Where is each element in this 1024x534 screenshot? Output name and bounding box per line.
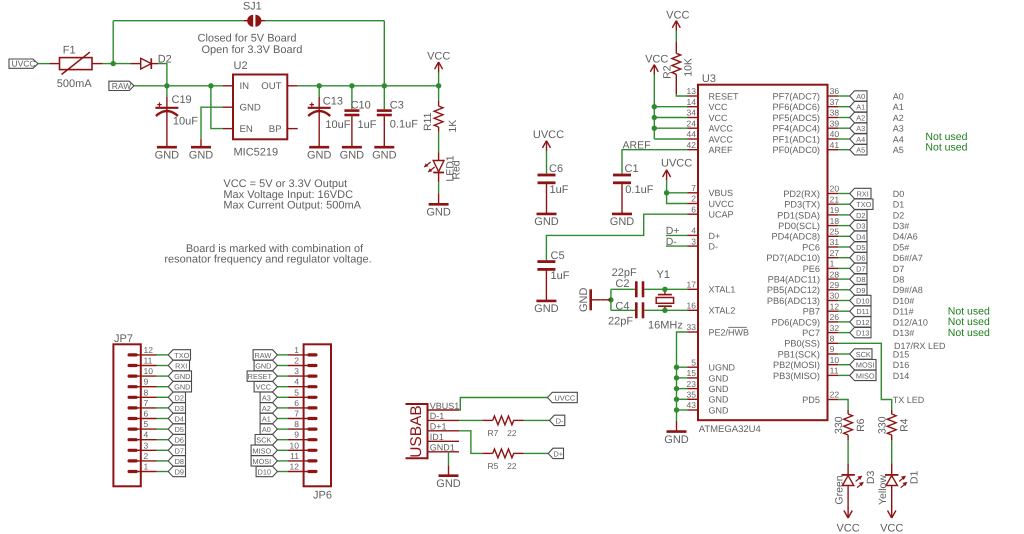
junction C10	[349, 83, 354, 88]
junction C13	[317, 83, 322, 88]
svg-text:C3: C3	[390, 100, 404, 112]
junction C19 tap	[164, 83, 169, 88]
U3 pin 8 PB0(SS)	[828, 342, 839, 344]
svg-text:26: 26	[830, 312, 840, 322]
wire pin 39 to flag	[838, 127, 850, 129]
svg-text:RAW: RAW	[254, 351, 271, 360]
svg-text:PF5(ADC5): PF5(ADC5)	[773, 113, 820, 123]
svg-text:R6: R6	[855, 418, 867, 432]
svg-text:A1: A1	[856, 103, 865, 112]
svg-text:11: 11	[830, 366, 839, 376]
svg-text:4: 4	[294, 377, 299, 387]
svg-text:UVCC: UVCC	[533, 129, 564, 141]
wire JP7 pin 10	[157, 375, 169, 377]
ground for C19	[157, 146, 177, 149]
svg-text:C6: C6	[549, 163, 563, 175]
node flag D8 JP7	[168, 456, 185, 466]
svg-text:25: 25	[830, 227, 840, 237]
svg-text:SCK: SCK	[856, 350, 871, 359]
svg-text:D0: D0	[893, 189, 905, 199]
node flag A0 JP6	[260, 424, 277, 434]
U3 pin 17 XTAL1	[688, 288, 699, 290]
svg-text:PB6(ADC13): PB6(ADC13)	[767, 296, 820, 306]
svg-text:IN: IN	[240, 81, 250, 92]
svg-text:VBUS1: VBUS1	[430, 401, 460, 411]
svg-text:2: 2	[691, 194, 696, 204]
svg-text:PD6(ADC9): PD6(ADC9)	[772, 317, 821, 327]
wire R4 to LED	[891, 440, 893, 463]
U3 pin 12 PB7	[828, 310, 839, 312]
node flag D13	[850, 327, 871, 337]
node flag A5	[850, 145, 867, 155]
node flag D4	[850, 231, 867, 241]
svg-text:8: 8	[144, 387, 149, 397]
JP6 pin 10	[309, 449, 316, 452]
svg-text:20: 20	[830, 184, 840, 194]
svg-text:22: 22	[507, 428, 517, 438]
U3 pin 28 PB4(ADC11)	[828, 278, 839, 280]
wire R5 to D+ flag	[524, 452, 549, 454]
svg-text:GND: GND	[436, 478, 461, 490]
svg-text:PC6: PC6	[802, 242, 820, 252]
node flag D7	[850, 263, 867, 273]
svg-text:PE6: PE6	[803, 264, 820, 274]
svg-text:D8: D8	[893, 275, 905, 285]
crystal Y1 stubs	[664, 289, 666, 294]
svg-text:UVCC: UVCC	[554, 394, 575, 403]
svg-text:PF7(ADC7): PF7(ADC7)	[773, 91, 820, 101]
node flag A2 JP6	[260, 403, 277, 413]
svg-text:PF4(ADC4): PF4(ADC4)	[773, 124, 820, 134]
node flag SCK JP6	[255, 435, 277, 445]
svg-text:11: 11	[144, 356, 153, 366]
wire JP7 pin 1	[157, 471, 169, 473]
U3 pin 5 UGND	[688, 366, 699, 368]
JP7 pin 5	[129, 428, 136, 431]
node flag RXI	[850, 188, 871, 198]
wire D+ net	[666, 234, 688, 236]
svg-text:7: 7	[691, 183, 696, 193]
JP7 pin 11	[129, 364, 136, 367]
wire pin 18 to flag	[838, 225, 850, 227]
svg-text:22: 22	[830, 390, 840, 400]
svg-text:D-1: D-1	[430, 411, 445, 421]
svg-text:1: 1	[294, 345, 299, 355]
node flag D4 JP7	[168, 413, 185, 423]
svg-text:1uF: 1uF	[550, 184, 569, 196]
svg-text:PB1(SCK): PB1(SCK)	[778, 349, 820, 359]
capacitor C1	[613, 174, 631, 177]
svg-text:D11#: D11#	[893, 307, 914, 317]
node flag D6 JP7	[168, 435, 185, 445]
U3 pin 27 PD7(ADC10)	[828, 257, 839, 259]
wire pin 38 to flag	[838, 117, 850, 119]
svg-text:40: 40	[830, 129, 840, 139]
U3 pin 4 D+	[688, 234, 699, 236]
svg-text:18: 18	[830, 216, 840, 226]
svg-text:VCC: VCC	[256, 383, 271, 392]
U3 pin 6 UCAP	[688, 213, 699, 215]
svg-text:D15: D15	[893, 349, 910, 359]
node flag D5 JP7	[168, 424, 185, 434]
wire R7 to D- flag	[524, 419, 550, 421]
svg-text:GND: GND	[189, 149, 214, 161]
svg-text:GND: GND	[709, 395, 730, 405]
USBAB pin D+1	[428, 430, 460, 432]
svg-text:D9: D9	[175, 468, 184, 477]
svg-text:C5: C5	[551, 250, 565, 262]
wire UCAP to C5	[546, 214, 687, 260]
node flag D6	[850, 253, 867, 263]
svg-text:VCC: VCC	[666, 10, 689, 22]
wire JP6 pin 5	[277, 396, 288, 398]
wire JP7 pin 11	[157, 365, 169, 367]
wire C3 lead	[383, 86, 385, 110]
svg-text:32: 32	[830, 323, 840, 333]
svg-text:A0: A0	[893, 91, 904, 101]
wire SJ1 left vertical	[112, 21, 114, 64]
wire JP7 pin 8	[157, 396, 169, 398]
resistor R11 leads	[438, 101, 440, 106]
node flag A3 JP6	[260, 392, 277, 402]
JP6 pin 3	[309, 375, 316, 378]
svg-text:1: 1	[830, 259, 835, 269]
ground for C1	[612, 213, 632, 216]
svg-text:GND: GND	[664, 434, 689, 446]
svg-text:41: 41	[830, 140, 840, 150]
svg-text:C10: C10	[351, 100, 371, 112]
svg-text:6: 6	[294, 398, 299, 408]
svg-text:R7: R7	[488, 428, 499, 438]
node flag GND JP7	[168, 371, 191, 381]
node flag MOSI JP6	[251, 456, 277, 466]
svg-text:0.1uF: 0.1uF	[625, 184, 653, 196]
svg-text:RESET: RESET	[248, 372, 273, 381]
regulator U2 pins	[223, 85, 233, 87]
svg-text:C19: C19	[172, 94, 192, 106]
svg-text:D+: D+	[553, 449, 563, 458]
svg-text:A1: A1	[893, 102, 904, 112]
U3 pin 26 PD6(ADC9)	[828, 321, 839, 323]
svg-text:PD7(ADC10): PD7(ADC10)	[766, 253, 820, 263]
svg-text:13: 13	[687, 86, 697, 96]
svg-text:A2: A2	[893, 113, 904, 123]
svg-text:MOSI: MOSI	[253, 457, 272, 466]
svg-text:PB0(SS): PB0(SS)	[784, 339, 820, 349]
svg-text:D1: D1	[909, 471, 921, 485]
svg-text:F1: F1	[63, 44, 76, 56]
wire pin 12 to flag	[838, 310, 850, 312]
svg-text:TXO: TXO	[856, 200, 871, 209]
resistor R7 leads	[482, 419, 492, 421]
wire pin 10 to flag	[838, 364, 850, 366]
svg-text:D14: D14	[893, 371, 910, 381]
resistor R6	[844, 414, 853, 435]
wire pin 28 to flag	[838, 278, 850, 280]
op-amp regulator U2 MIC5219 body	[233, 75, 287, 140]
svg-text:VCC: VCC	[836, 523, 859, 534]
svg-text:USBAB: USBAB	[408, 405, 425, 458]
svg-text:39: 39	[830, 118, 840, 128]
JP7 pin 3	[129, 449, 136, 452]
junction R11	[436, 83, 441, 88]
resistor R6 leads	[847, 410, 849, 414]
ground for C10	[342, 146, 362, 149]
svg-text:GND: GND	[578, 288, 590, 313]
U3 pin 11 PB3(MISO)	[828, 374, 839, 376]
svg-text:1uF: 1uF	[358, 119, 377, 131]
svg-text:TXO: TXO	[174, 351, 189, 360]
node D- flag	[550, 415, 565, 425]
svg-text:43: 43	[687, 400, 697, 410]
svg-text:Red: Red	[451, 160, 463, 179]
svg-text:PD3(TX): PD3(TX)	[784, 200, 820, 210]
svg-text:A4: A4	[893, 134, 904, 144]
wire D1 to VCC	[891, 486, 893, 509]
ground for LED1	[429, 203, 449, 206]
wire pin 1 to flag	[838, 267, 850, 269]
wire pin 11 to flag	[838, 374, 850, 376]
node flag D3 JP7	[168, 403, 185, 413]
USBAB pin D-1	[428, 419, 460, 421]
JP6 pin 9	[309, 438, 316, 441]
svg-text:D17/RX LED: D17/RX LED	[894, 341, 946, 351]
wire JP7 pin 3	[157, 449, 169, 451]
node UVCC flag right	[548, 392, 578, 402]
svg-text:C2: C2	[615, 278, 629, 290]
svg-text:R2: R2	[661, 65, 673, 79]
svg-text:27: 27	[830, 248, 840, 258]
svg-text:VCC: VCC	[709, 102, 729, 112]
wire pin 27 to flag	[838, 257, 850, 259]
svg-text:D-: D-	[709, 242, 719, 252]
svg-text:VCC: VCC	[427, 51, 450, 63]
connector USBAB body	[427, 403, 429, 459]
svg-text:D10: D10	[856, 297, 869, 306]
node flag D10 JP6	[256, 466, 277, 476]
svg-text:14: 14	[687, 97, 697, 107]
U3 pin 18 PD0(SCL)	[828, 225, 839, 227]
wire JP6 pin 2	[277, 365, 288, 367]
svg-text:34: 34	[687, 108, 697, 118]
svg-text:16MHz: 16MHz	[648, 320, 683, 332]
svg-text:9: 9	[830, 344, 835, 354]
wire crystal ground link	[610, 289, 612, 310]
svg-text:PD1(SDA): PD1(SDA)	[777, 210, 820, 220]
wire JP6 pin 11	[277, 460, 288, 462]
U3 pin 9 PB1(SCK)	[828, 353, 839, 355]
wire JP6 pin 3	[277, 375, 288, 377]
svg-text:GND: GND	[709, 405, 730, 415]
U3 pin 31 PC6	[828, 246, 839, 248]
LED D3	[841, 474, 854, 476]
svg-text:D6: D6	[175, 436, 184, 445]
svg-text:JP6: JP6	[313, 490, 332, 502]
wire SJ1 top run left	[113, 20, 243, 22]
svg-text:PF0(ADC0): PF0(ADC0)	[773, 145, 820, 155]
U3 pin 10 PB2(MOSI)	[828, 364, 839, 366]
node D+ flag	[548, 448, 563, 458]
node flag D9 JP7	[168, 466, 185, 476]
svg-text:MISO: MISO	[856, 371, 875, 380]
wire VCC to supply pins	[653, 75, 655, 139]
svg-text:TX LED: TX LED	[893, 395, 925, 405]
svg-text:GND: GND	[426, 207, 451, 219]
svg-text:2: 2	[144, 451, 149, 461]
ground for C3	[374, 146, 394, 149]
svg-text:UGND: UGND	[709, 363, 736, 373]
ground for U2	[191, 146, 211, 149]
node flag SCK	[850, 349, 872, 359]
U3 pin 23 GND	[688, 388, 699, 390]
svg-text:3: 3	[144, 440, 149, 450]
node flag D2 JP7	[168, 392, 185, 402]
wire JP7 pin 4	[157, 439, 169, 441]
svg-text:D6: D6	[856, 254, 865, 263]
svg-text:A2: A2	[856, 114, 865, 123]
node flag D11	[850, 306, 871, 316]
wire to R11	[438, 86, 440, 101]
svg-text:500mA: 500mA	[57, 78, 93, 90]
wire pin 40 to flag	[838, 138, 850, 140]
svg-text:7: 7	[294, 409, 299, 419]
svg-text:D11: D11	[856, 307, 869, 316]
svg-text:44: 44	[687, 129, 697, 139]
node flag MISO	[850, 370, 876, 380]
svg-text:D3: D3	[865, 471, 877, 485]
svg-text:15: 15	[687, 368, 697, 378]
node flag RESET JP6	[247, 371, 277, 381]
svg-text:SCK: SCK	[256, 436, 271, 445]
svg-text:8: 8	[294, 419, 299, 429]
JP7 pin 4	[129, 438, 136, 441]
U3 pin 34 VCC	[688, 117, 699, 119]
svg-text:Max Current Output: 500mA: Max Current Output: 500mA	[223, 200, 361, 212]
wire JP6 pin 6	[277, 407, 288, 409]
node flag VCC JP6	[254, 382, 277, 392]
svg-text:22pF: 22pF	[612, 267, 637, 279]
svg-text:A0: A0	[262, 425, 271, 434]
svg-text:AVCC: AVCC	[709, 124, 734, 134]
svg-text:D9: D9	[856, 286, 865, 295]
svg-text:12: 12	[830, 301, 840, 311]
wire XTAL1 net	[644, 288, 687, 290]
svg-text:6: 6	[144, 409, 149, 419]
wire F1 to D2 with junction node	[103, 63, 131, 65]
svg-text:5: 5	[144, 419, 149, 429]
JP7 pin 12	[129, 353, 136, 356]
svg-text:U2: U2	[234, 60, 248, 72]
junction UVCC	[664, 190, 669, 195]
svg-text:PD2(RX): PD2(RX)	[783, 189, 820, 199]
svg-text:GND: GND	[709, 373, 730, 383]
svg-text:D+1: D+1	[430, 422, 447, 432]
node flag A0	[850, 91, 867, 101]
wire JP6 pin 10	[277, 449, 288, 451]
wire D2 cathode down to RAW rail	[158, 64, 167, 86]
svg-text:2: 2	[294, 356, 299, 366]
svg-text:Yellow: Yellow	[877, 475, 889, 505]
wire VBUS1 to UVCC flag	[459, 398, 548, 411]
svg-text:RXI: RXI	[857, 190, 869, 199]
svg-text:D12/A10: D12/A10	[893, 317, 928, 327]
wire R6 to LED	[847, 440, 849, 463]
resistor R4 leads	[891, 410, 893, 414]
junction at SJ1 drop	[111, 61, 116, 66]
svg-text:A5: A5	[893, 145, 904, 155]
svg-text:Not used: Not used	[925, 142, 967, 154]
svg-text:19: 19	[830, 205, 840, 215]
U3 pin 15 GND	[688, 377, 699, 379]
wire JP6 pin 8	[277, 428, 288, 430]
svg-text:VCC: VCC	[645, 54, 668, 66]
svg-text:D7: D7	[856, 264, 865, 273]
svg-text:330: 330	[877, 416, 889, 434]
svg-text:17: 17	[687, 280, 697, 290]
svg-text:24: 24	[687, 118, 697, 128]
svg-text:3: 3	[294, 366, 299, 376]
svg-text:42: 42	[687, 140, 697, 150]
svg-text:D3: D3	[856, 222, 865, 231]
node flag RAW JP6	[253, 350, 277, 360]
svg-text:AREF: AREF	[709, 145, 734, 155]
svg-text:D9#/A8: D9#/A8	[893, 285, 923, 295]
JP7 pin 9	[129, 385, 136, 388]
node flag A3	[850, 123, 867, 133]
svg-text:A2: A2	[262, 404, 271, 413]
solder jumper SJ1 pins	[244, 20, 250, 22]
JP7 pin 7	[129, 406, 136, 409]
svg-text:GND1: GND1	[430, 443, 455, 453]
power VCC below D1	[891, 507, 893, 518]
wire to U3 ground	[676, 410, 678, 421]
capacitor C3	[377, 109, 392, 112]
svg-text:RAW: RAW	[112, 81, 132, 91]
svg-text:8: 8	[830, 334, 835, 344]
JP6 pin 8	[309, 428, 316, 431]
svg-text:VCC: VCC	[709, 113, 729, 123]
wire JP7 pin 6	[157, 418, 169, 420]
svg-text:D10#: D10#	[893, 296, 915, 306]
capacitor C19	[166, 97, 168, 147]
svg-text:6: 6	[691, 204, 696, 214]
wire JP6 pin 1	[277, 354, 288, 356]
JP6 pin 5	[309, 396, 316, 399]
svg-text:0.1uF: 0.1uF	[390, 119, 418, 131]
svg-text:10: 10	[830, 355, 840, 365]
svg-text:D4: D4	[856, 232, 865, 241]
svg-text:D5: D5	[856, 243, 865, 252]
wire C6 to ground	[546, 181, 548, 214]
svg-text:10uF: 10uF	[173, 115, 198, 127]
USBAB pin ID1	[428, 440, 460, 442]
JP6 pin 4	[309, 385, 316, 388]
ground for USBAB	[439, 474, 459, 477]
LED LED1	[433, 161, 444, 172]
U3 pin 30 PB6(ADC13)	[828, 300, 839, 302]
svg-text:D16: D16	[893, 360, 910, 370]
svg-text:A3: A3	[856, 124, 865, 133]
JP6 pin 1	[309, 353, 316, 356]
wire pin 30 to flag	[838, 300, 850, 302]
svg-text:D4: D4	[175, 415, 184, 424]
wire JP6 pin 4	[277, 386, 288, 388]
svg-text:JP7: JP7	[114, 333, 133, 345]
node flag A1 JP6	[260, 413, 277, 423]
svg-text:XTAL2: XTAL2	[709, 306, 736, 316]
wire JP6 pin 12	[277, 471, 288, 473]
U3 pin 20 PD2(RX)	[828, 193, 839, 195]
